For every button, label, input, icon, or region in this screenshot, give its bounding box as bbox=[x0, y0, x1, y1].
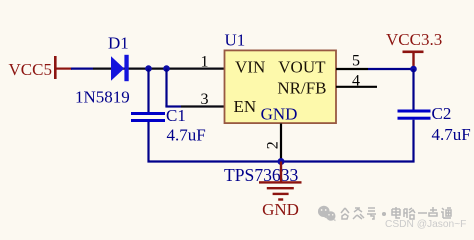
svg-text:VIN: VIN bbox=[235, 58, 265, 77]
pin 1 of U1 (VIN) wire from diode bbox=[93, 67, 225, 69]
wire EN branch bbox=[165, 69, 181, 107]
svg-text:EN: EN bbox=[234, 97, 257, 116]
power port VCC5 bbox=[9, 56, 73, 79]
号 bbox=[367, 208, 376, 219]
众 bbox=[353, 208, 364, 219]
regulator IC U1 (TPS73633) bbox=[225, 50, 337, 123]
capacitor C1 bbox=[131, 69, 165, 163]
svg-text:2: 2 bbox=[265, 141, 282, 149]
svg-text:NR/FB: NR/FB bbox=[277, 79, 326, 98]
wire VOUT to VCC3.3 node bbox=[368, 68, 414, 70]
svg-text:GND: GND bbox=[262, 200, 299, 219]
pin 3 of U1 (EN) bbox=[181, 105, 225, 107]
svg-text:D1: D1 bbox=[108, 34, 129, 53]
svg-text:CSDN @Jason~F: CSDN @Jason~F bbox=[385, 219, 466, 230]
通 bbox=[441, 208, 451, 218]
· bbox=[383, 213, 386, 216]
svg-text:VOUT: VOUT bbox=[278, 58, 326, 77]
电 bbox=[392, 207, 400, 218]
svg-text:VCC3.3: VCC3.3 bbox=[386, 30, 442, 49]
ground rail wire bbox=[148, 160, 415, 162]
junction node at VCC3.3 bbox=[410, 66, 417, 73]
svg-text:5: 5 bbox=[352, 53, 360, 70]
点 bbox=[429, 207, 437, 219]
pin 5 of U1 (VOUT) bbox=[336, 68, 368, 70]
capacitor C2 bbox=[398, 69, 431, 163]
ground bbox=[259, 162, 302, 220]
svg-text:C2: C2 bbox=[432, 104, 452, 123]
svg-text:1: 1 bbox=[201, 54, 209, 71]
svg-text:U1: U1 bbox=[225, 31, 246, 50]
junction node at C1 bbox=[145, 65, 152, 72]
一 bbox=[418, 212, 427, 214]
svg-text:4.7uF: 4.7uF bbox=[432, 125, 471, 144]
svg-text:1N5819: 1N5819 bbox=[75, 88, 130, 107]
pin 4 of U1 (NR/FB) stub bbox=[336, 86, 377, 88]
svg-text:4.7uF: 4.7uF bbox=[167, 126, 206, 145]
diode D1 bbox=[111, 55, 129, 81]
power port VCC3.3 bbox=[386, 30, 442, 68]
svg-text:VCC5: VCC5 bbox=[9, 60, 52, 79]
svg-text:C1: C1 bbox=[166, 106, 186, 125]
svg-text:3: 3 bbox=[201, 91, 209, 108]
svg-text:GND: GND bbox=[261, 105, 298, 124]
路 bbox=[404, 208, 415, 219]
watermark bbox=[318, 206, 336, 221]
pin 2 of U1 (GND) bbox=[280, 124, 282, 160]
wire VCC5 to diode D1 bbox=[71, 67, 93, 69]
junction node at EN branch bbox=[163, 65, 170, 72]
公 bbox=[341, 208, 349, 219]
junction node at GND bbox=[278, 158, 285, 165]
